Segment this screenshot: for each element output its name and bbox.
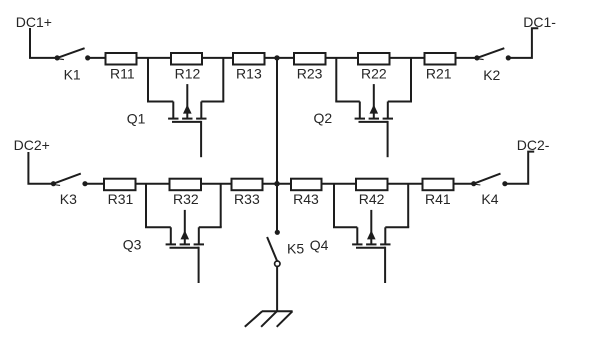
svg-text:R31: R31	[108, 191, 134, 207]
svg-text:R22: R22	[361, 66, 387, 82]
svg-text:K5: K5	[287, 240, 304, 256]
svg-text:R33: R33	[234, 191, 260, 207]
svg-text:R12: R12	[175, 66, 201, 82]
svg-text:R42: R42	[359, 191, 385, 207]
svg-text:Q1: Q1	[127, 110, 146, 126]
svg-text:K4: K4	[481, 191, 498, 207]
svg-text:Q2: Q2	[314, 110, 333, 126]
svg-text:K1: K1	[64, 66, 81, 82]
svg-text:K2: K2	[483, 67, 500, 83]
svg-text:R41: R41	[425, 191, 451, 207]
svg-text:K3: K3	[60, 191, 77, 207]
svg-text:Q4: Q4	[310, 237, 329, 253]
svg-text:DC1-: DC1-	[523, 14, 556, 30]
svg-text:Q3: Q3	[123, 236, 142, 252]
svg-text:R32: R32	[173, 191, 199, 207]
svg-text:DC2+: DC2+	[14, 137, 50, 153]
svg-text:R43: R43	[293, 191, 319, 207]
svg-text:R23: R23	[297, 66, 323, 82]
svg-text:DC1+: DC1+	[16, 14, 52, 30]
svg-text:R21: R21	[426, 66, 452, 82]
svg-text:R11: R11	[110, 66, 135, 82]
svg-text:R13: R13	[236, 66, 262, 82]
svg-text:DC2-: DC2-	[517, 137, 550, 153]
